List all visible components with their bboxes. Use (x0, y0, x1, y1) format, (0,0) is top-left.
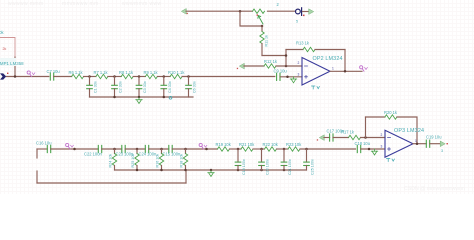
svg-text:R22 10k: R22 10k (263, 142, 279, 147)
wire input horizontal (7, 76, 49, 78)
terminal (left arrow) C17 input (320, 135, 325, 140)
shunt resistor R24 (109, 149, 117, 170)
node (73, 148, 76, 151)
node (136, 148, 139, 151)
svg-text:2k: 2k (3, 47, 7, 51)
voltage probe (27, 71, 35, 77)
red pin mark (317, 139, 318, 140)
svg-text:R16 10k: R16 10k (156, 154, 160, 168)
svg-text:R6 1.1k: R6 1.1k (69, 70, 84, 75)
wire (244, 65, 264, 67)
wire to plus input (361, 148, 385, 150)
wire to minus input (276, 65, 302, 67)
node minus (285, 65, 288, 68)
node (163, 75, 166, 78)
svg-text:OP2 LM324: OP2 LM324 (313, 56, 343, 62)
svg-text:wwwmmm www: wwwmmm www (122, 1, 162, 7)
svg-text:C18 10u: C18 10u (355, 141, 370, 146)
resistor R10 (170, 74, 182, 78)
red pin mark (7, 73, 8, 74)
shunt capacitor C3 (136, 77, 147, 98)
red mark wiper (257, 14, 258, 15)
plus mark (388, 148, 391, 151)
resistor R22 (265, 147, 277, 151)
feedback wire up (365, 117, 367, 138)
resistor R17 (349, 135, 361, 139)
resistor R9 (145, 74, 157, 78)
wire (333, 137, 349, 139)
wire (51, 148, 99, 150)
svg-text:C16 10u: C16 10u (36, 141, 51, 146)
capacitor C24 (145, 145, 148, 152)
output wire (330, 70, 362, 72)
resistor R20 (385, 115, 397, 119)
svg-text:R13 1k: R13 1k (296, 41, 310, 46)
svg-text:C4 33n: C4 33n (168, 81, 172, 93)
svg-text:C2 33n: C2 33n (119, 81, 123, 93)
svg-text:C19 10u: C19 10u (426, 135, 441, 140)
svg-text:R18 10k: R18 10k (180, 154, 184, 168)
svg-text:R10 1.1k: R10 1.1k (168, 70, 185, 75)
terminal (left arrow) on top wire (182, 9, 187, 14)
svg-text:R11 1k: R11 1k (265, 35, 269, 47)
svg-text:C20 100n: C20 100n (266, 159, 270, 175)
node (260, 148, 263, 151)
wire (277, 148, 289, 150)
junction node (239, 10, 242, 13)
capacitor C26 (426, 140, 429, 147)
feedback wire top (366, 116, 385, 118)
wire bottom return (37, 182, 186, 184)
shunt capacitor C2 (112, 77, 123, 98)
node (160, 148, 163, 151)
wire stub to terminal (303, 11, 309, 13)
svg-text:C6 33n: C6 33n (193, 81, 197, 93)
svg-text:C7 10u: C7 10u (47, 69, 60, 74)
svg-text:3: 3 (298, 73, 300, 77)
op-amp OP3 LM324 (385, 130, 413, 157)
shunt capacitor C1 (87, 77, 98, 98)
shunt capacitor C25 (304, 149, 315, 175)
hidden power mark (312, 86, 320, 89)
svg-text:R23 10k: R23 10k (286, 142, 302, 147)
resistor R6 (72, 74, 84, 78)
output node (416, 142, 419, 145)
wire (157, 76, 170, 78)
node (113, 148, 116, 151)
svg-text:R25 10k: R25 10k (131, 154, 135, 168)
rail nodes (136, 169, 139, 172)
svg-text:OP3 LM324: OP3 LM324 (394, 128, 424, 134)
red pin mark (187, 13, 188, 14)
node (138, 75, 141, 78)
wire feedback down to output (344, 50, 346, 72)
voltage probe output (360, 66, 368, 72)
ground (136, 98, 142, 104)
node (205, 148, 208, 151)
node (88, 75, 91, 78)
svg-text:mmmwww mm: mmmwww mm (62, 1, 99, 7)
input port terminal (0, 73, 6, 79)
capacitor C17 (330, 134, 333, 141)
resistor R8 (121, 74, 133, 78)
shunt capacitor C20 (259, 149, 270, 175)
wire (253, 148, 265, 150)
resistor R7 (96, 74, 108, 78)
wire (133, 76, 145, 78)
capacitor C9 (277, 73, 280, 80)
resistor R21 (241, 147, 253, 151)
capacitor C5 (polarized, small) (296, 8, 302, 16)
plus mark (305, 75, 308, 78)
svg-text:3: 3 (381, 145, 383, 149)
svg-text:C19 100n: C19 100n (242, 159, 246, 175)
hidden power mark (387, 159, 395, 162)
ground rail mid (90, 96, 194, 98)
potentiometer RV1 wiper arrow (258, 16, 263, 24)
svg-text:R20 1k: R20 1k (384, 110, 398, 115)
svg-text:C21 100n: C21 100n (288, 159, 292, 175)
feedback wire with R13 (286, 49, 303, 51)
wire (230, 148, 242, 150)
op-amp OP2 LM324 (302, 58, 330, 86)
label highlight (0, 58, 16, 66)
node (285, 54, 288, 57)
svg-text:AMP1 LM358: AMP1 LM358 (0, 61, 24, 66)
wire L from junction down (240, 11, 262, 26)
svg-text:R19 10k: R19 10k (216, 142, 232, 147)
junction node wiper (261, 25, 264, 28)
shunt capacitor C4 (161, 77, 172, 98)
output node (344, 70, 347, 73)
ground (208, 171, 214, 177)
svg-text:1: 1 (415, 139, 417, 143)
feedback node vertical (285, 50, 287, 67)
resistor R12 (264, 64, 276, 68)
minus mark (305, 65, 308, 67)
capacitor C7 (50, 73, 53, 80)
node (237, 148, 240, 151)
node minus (364, 136, 367, 139)
wire to output terminal (430, 143, 440, 145)
wire feedback right (315, 49, 345, 51)
wire (149, 148, 169, 150)
voltage probe (199, 143, 207, 149)
terminal (left arrow) R12 input (240, 63, 245, 68)
wire top left segment (37, 148, 47, 150)
tiny net marker (169, 96, 172, 99)
svg-text:R7 1.1k: R7 1.1k (94, 70, 109, 75)
node (187, 75, 190, 78)
node (305, 148, 308, 151)
amplifier block AMP1 box edge (0, 38, 15, 58)
wire (108, 76, 121, 78)
svg-text:R21 10k: R21 10k (239, 142, 255, 147)
svg-text:wwwww mmm: wwwww mmm (8, 1, 44, 7)
red pin mark (237, 68, 238, 69)
red pin mark (447, 143, 448, 144)
resistor R23 (288, 147, 300, 151)
wire (300, 148, 356, 150)
svg-text:R12 1k: R12 1k (264, 59, 278, 64)
wire C9 to plus input (280, 76, 302, 78)
node (113, 75, 116, 78)
wire (102, 148, 122, 150)
svg-text:3: 3 (441, 149, 443, 153)
wire top horizontal right segment (268, 10, 296, 12)
capacitor C22 (98, 145, 101, 152)
svg-text:CSDN @ mmwwmmwwnn: CSDN @ mmwwmmwwnn (404, 186, 465, 192)
feedback wire right + down (397, 117, 417, 144)
capacitor C18 (357, 145, 360, 152)
svg-text:R17 1k: R17 1k (341, 130, 355, 135)
capacitor C16 (47, 145, 50, 152)
wire (54, 76, 72, 78)
ground at plus input (290, 77, 296, 83)
wire top horizontal left segment (186, 10, 253, 12)
svg-text:C22 100n: C22 100n (84, 152, 102, 157)
shunt capacitor C21 (281, 149, 292, 175)
wire to right ladder (172, 148, 217, 150)
resistor R13 (303, 47, 315, 51)
junction node (14, 75, 17, 78)
terminal (right arrow) output (440, 141, 445, 146)
shunt resistor R16 (156, 149, 164, 170)
svg-text:10k: 10k (0, 30, 5, 35)
wire to minus input (361, 137, 386, 139)
wire riser to rail (185, 170, 187, 183)
svg-text:C24 100n: C24 100n (139, 152, 157, 157)
svg-text:1: 1 (332, 67, 334, 71)
red polarity dot (303, 15, 305, 17)
svg-text:R9 1.1k: R9 1.1k (144, 70, 159, 75)
capacitor C23 (122, 145, 125, 152)
wire R11 bottom (261, 44, 263, 56)
wire left corner vertical (36, 149, 38, 158)
ground rail bottom (115, 169, 307, 171)
output wire (413, 143, 426, 145)
svg-text:2: 2 (277, 2, 280, 7)
wire long to C9 (182, 76, 275, 78)
node plus (286, 76, 289, 79)
capacitor C15 (169, 145, 172, 152)
svg-text:C3 33n: C3 33n (143, 81, 147, 93)
svg-text:2: 2 (298, 61, 300, 65)
shunt capacitor C5b (186, 77, 197, 98)
resistor R19 (218, 147, 230, 151)
svg-text:5: 5 (296, 20, 298, 24)
wire (324, 137, 330, 139)
potentiometer RV1 (253, 9, 265, 13)
shunt resistor R18 (180, 149, 188, 170)
shunt capacitor C19 (235, 149, 246, 175)
svg-text:C1 33n: C1 33n (94, 81, 98, 93)
terminal (right arrow) top right (309, 9, 314, 14)
svg-text:R8 1.1k: R8 1.1k (119, 70, 134, 75)
wire (125, 148, 145, 150)
svg-text:C25 100n: C25 100n (311, 159, 315, 175)
wire AMP1 output vertical (14, 57, 16, 77)
voltage probe (66, 143, 74, 149)
rail nodes (113, 96, 116, 99)
svg-text:R24 10k: R24 10k (109, 154, 113, 168)
resistor R11 vertical (261, 26, 263, 31)
svg-text:C15 100n: C15 100n (163, 152, 181, 157)
shunt resistor R25 (131, 149, 139, 170)
svg-text:2: 2 (381, 133, 383, 137)
node (283, 148, 286, 151)
ground at plus input (371, 149, 377, 155)
node plus (368, 148, 371, 151)
minus mark (388, 137, 391, 139)
wire horizontal to minus node (262, 55, 286, 57)
node (184, 148, 187, 151)
wire (84, 76, 96, 78)
